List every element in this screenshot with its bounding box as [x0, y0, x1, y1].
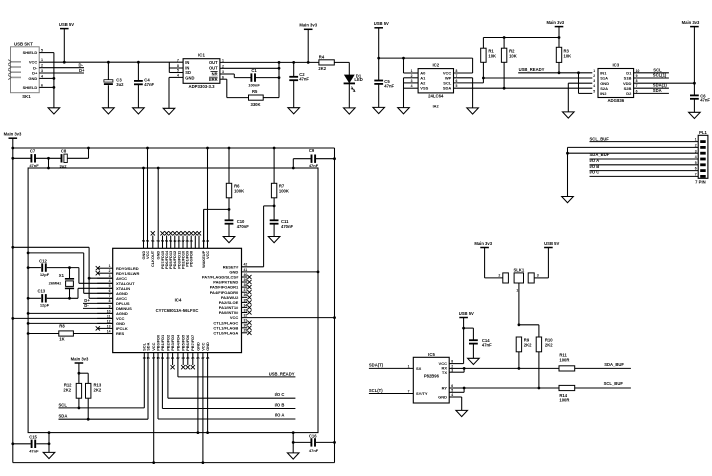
wire SDA_BUF — [575, 362, 631, 368]
wire SLK1 pad2 — [485, 274, 503, 278]
svg-text:D2: D2 — [626, 91, 632, 96]
svg-text:10K: 10K — [488, 53, 496, 58]
wire IC2 A0 pullup — [404, 58, 419, 73]
connector SK1 pin labels — [23, 50, 38, 90]
node D- label (IC4) — [83, 303, 113, 309]
svg-text:D+: D+ — [32, 71, 38, 76]
node SCL(T) label — [369, 388, 383, 393]
svg-text:3: 3 — [593, 79, 595, 83]
svg-text:IC4: IC4 — [175, 298, 182, 303]
jumper SLK1 pads — [503, 267, 534, 292]
ground (C4) — [133, 108, 145, 114]
wire IC3 D1 SCL — [634, 67, 669, 73]
svg-text:D-: D- — [84, 303, 89, 308]
analog switch IC3 body — [598, 62, 634, 103]
ground (PL1 pins 2,3) — [562, 197, 574, 203]
wire IC4 VCC pin27 column — [202, 353, 204, 463]
svg-text:47nF: 47nF — [29, 163, 39, 168]
svg-text:38: 38 — [244, 283, 248, 287]
wire 3v3 right trunk — [333, 148, 336, 463]
capacitor C11 — [270, 219, 294, 237]
wire SLK1 common — [518, 283, 539, 337]
svg-text:PB4/FD4: PB4/FD4 — [175, 334, 180, 351]
svg-text:C7: C7 — [30, 149, 36, 154]
wire PL1 pin1 SCL_BUF — [590, 137, 699, 142]
power Main 3v3 (top left trunk) — [4, 132, 22, 463]
svg-text:IN: IN — [185, 60, 189, 65]
svg-text:GND: GND — [205, 342, 210, 351]
svg-text:PL1: PL1 — [699, 130, 707, 135]
svg-text:40: 40 — [244, 273, 248, 277]
svg-text:11: 11 — [107, 314, 111, 318]
svg-text:3: 3 — [537, 274, 539, 278]
node I/O C label — [275, 392, 285, 397]
IC4 left pin stubs — [97, 268, 113, 333]
wire VCC 5V net — [39, 61, 183, 64]
svg-text:1: 1 — [109, 264, 111, 268]
capacitor C1 — [248, 68, 260, 87]
connector SK1 contact fingers — [8, 60, 21, 80]
svg-text:330K: 330K — [250, 102, 260, 107]
svg-text:SDA_BUF: SDA_BUF — [590, 152, 610, 157]
connector PL1 pads — [700, 140, 706, 178]
wire WAKEUP jog — [204, 209, 229, 248]
capacitor C7 — [11, 149, 39, 169]
svg-text:100nF: 100nF — [248, 82, 260, 87]
wire IC3 VDD — [634, 82, 696, 85]
svg-text:47nF: 47nF — [309, 163, 319, 168]
wire C8 to 3v3 rail — [67, 148, 88, 158]
ground (socket shield) — [48, 108, 60, 114]
wire AVCC pin7 — [89, 297, 113, 299]
svg-text:4: 4 — [41, 74, 43, 78]
svg-text:SCL: SCL — [59, 402, 68, 407]
wire IC5 VCC pin8 — [449, 363, 463, 365]
svg-text:8: 8 — [109, 299, 111, 303]
svg-text:IC3: IC3 — [612, 62, 619, 67]
svg-text:3: 3 — [109, 274, 111, 278]
svg-text:29: 29 — [244, 329, 248, 333]
wire IC5 GND pin4 — [449, 397, 462, 410]
wire XTALIN pin5 — [78, 288, 113, 298]
svg-text:C15: C15 — [29, 435, 37, 440]
wire IC2 WP to ground — [454, 78, 473, 108]
svg-text:VSS: VSS — [420, 86, 428, 91]
wire PL1 pin7 I/O C — [590, 170, 699, 177]
IC4 left pin labels — [116, 266, 139, 336]
wire IC3 GND — [568, 83, 592, 112]
svg-text:C8: C8 — [61, 149, 67, 154]
wire SDA buffered net — [464, 367, 559, 369]
svg-text:I/O C: I/O C — [275, 392, 285, 397]
wire AVCC pin3 — [89, 277, 113, 279]
wire SDA — [59, 418, 149, 420]
svg-text:P82B96: P82B96 — [424, 374, 440, 379]
wire VCC pin11 — [11, 317, 112, 320]
svg-text:GND: GND — [438, 395, 447, 400]
IC4 top no-connect stubs — [151, 231, 201, 248]
resistor R1 — [481, 38, 496, 79]
IC5 pin numbers — [408, 360, 454, 398]
resistor R2 — [501, 38, 516, 89]
wire IC2 VCC pin8 — [454, 58, 473, 73]
svg-text:C12: C12 — [39, 259, 47, 264]
svg-text:PB1/FD1: PB1/FD1 — [160, 334, 165, 351]
wire IC3 IN2 branch — [579, 73, 593, 94]
svg-text:34: 34 — [244, 303, 248, 307]
wire SDA bus — [454, 87, 593, 90]
svg-text:USB_READY: USB_READY — [269, 372, 295, 377]
ground (IC2 address pins) — [398, 108, 410, 114]
wire SCL — [59, 407, 145, 409]
svg-text:100R: 100R — [559, 398, 569, 403]
svg-text:Main 3v3: Main 3v3 — [71, 356, 89, 361]
svg-text:GND: GND — [185, 76, 194, 81]
IC4 right pin numbers — [244, 263, 248, 333]
resistor R3 — [556, 47, 571, 74]
svg-text:VCC: VCC — [145, 251, 150, 259]
no-connect X pins 1 2 13 — [96, 266, 100, 330]
svg-text:D-: D- — [33, 65, 38, 70]
svg-text:2K2: 2K2 — [63, 387, 71, 392]
svg-text:1K: 1K — [59, 336, 64, 341]
svg-text:3u2: 3u2 — [116, 82, 124, 87]
memory IC2 body — [418, 62, 453, 108]
svg-text:USB 5V: USB 5V — [544, 241, 559, 246]
svg-text:5: 5 — [109, 284, 111, 288]
svg-text:ERR: ERR — [209, 77, 218, 82]
svg-text:Main 3v3: Main 3v3 — [682, 20, 700, 25]
svg-text:42: 42 — [244, 263, 248, 267]
svg-text:2K2: 2K2 — [318, 66, 326, 71]
svg-text:IC1: IC1 — [198, 53, 205, 58]
capacitor C15 — [11, 435, 50, 454]
svg-text:47nF: 47nF — [309, 448, 319, 453]
svg-text:13: 13 — [107, 324, 111, 328]
svg-text:3: 3 — [411, 79, 413, 83]
wire IC4 VCC pin43 column — [207, 148, 209, 248]
svg-text:6: 6 — [636, 89, 638, 93]
wire IC1 OUT2 — [220, 67, 281, 70]
wire R4 to LED — [334, 62, 349, 75]
resistor R11 — [559, 353, 575, 371]
IC3 pin labels — [600, 70, 632, 96]
svg-text:9: 9 — [636, 74, 638, 78]
svg-text:A2: A2 — [420, 80, 426, 85]
power USB 5V (IC5) — [459, 311, 474, 364]
resistor R6 — [226, 148, 244, 198]
svg-text:100R: 100R — [559, 357, 569, 362]
wire C1 to OUT vertical — [255, 62, 280, 97]
resistor R9 — [516, 337, 532, 370]
wire USB5V horizontal — [377, 57, 472, 60]
wire IC4 PB1 column — [161, 353, 163, 409]
svg-text:SHIELD: SHIELD — [23, 50, 38, 55]
svg-text:SDA: SDA — [443, 86, 452, 91]
svg-text:C1: C1 — [251, 68, 257, 73]
resistor R10 — [536, 337, 553, 389]
svg-text:3: 3 — [41, 69, 43, 73]
svg-text:SCL(1): SCL(1) — [653, 73, 667, 78]
wire IC4 SCL column — [143, 353, 145, 408]
svg-text:30: 30 — [244, 324, 248, 328]
capacitor C3 — [104, 62, 124, 108]
crystal X1 — [49, 268, 74, 299]
ground (C16) — [287, 453, 299, 459]
svg-text:5: 5 — [41, 49, 43, 53]
svg-text:2: 2 — [109, 269, 111, 273]
svg-text:41: 41 — [244, 268, 248, 272]
wire SCL buffered net — [464, 387, 559, 389]
wire 3v3 top rail — [11, 147, 334, 150]
svg-text:1: 1 — [593, 69, 595, 73]
svg-text:USB 5V: USB 5V — [59, 22, 74, 27]
svg-text:X1: X1 — [59, 273, 65, 278]
svg-text:14: 14 — [107, 329, 111, 333]
IC1 pin labels — [185, 60, 218, 82]
svg-text:4: 4 — [593, 84, 595, 88]
svg-text:SY/TY: SY/TY — [416, 391, 428, 396]
capacitor C6 — [690, 93, 710, 112]
ground (C2) — [288, 108, 300, 114]
wire IC1 IN pins tie — [169, 62, 183, 72]
svg-text:IC5: IC5 — [428, 352, 435, 357]
capacitor C9 — [293, 148, 334, 168]
wire GND pin4 — [39, 77, 55, 80]
svg-text:33: 33 — [244, 308, 248, 312]
wire IC4 VCC pin32 to 3v3 — [242, 317, 335, 319]
svg-text:VCC: VCC — [29, 60, 38, 65]
svg-text:6: 6 — [41, 83, 43, 87]
ground (IC5) — [456, 410, 468, 416]
svg-text:470nF: 470nF — [237, 224, 250, 229]
svg-text:8: 8 — [456, 69, 458, 73]
IC4 bottom pin labels — [142, 334, 210, 351]
svg-text:I/O A: I/O A — [275, 413, 285, 418]
svg-text:NR: NR — [212, 72, 218, 77]
svg-text:4: 4 — [109, 279, 111, 283]
wire IC3 S2B SDA(1) — [634, 83, 669, 89]
wire C15 node to ground — [48, 433, 50, 453]
wire IC2 A1 A2 VSS to ground — [404, 78, 419, 108]
node I/O A label — [275, 413, 285, 418]
buffer IC5 body — [413, 352, 449, 403]
svg-text:R3: R3 — [564, 48, 570, 53]
svg-text:36: 36 — [244, 293, 248, 297]
wire IC4 WAKEUP column — [203, 209, 205, 248]
svg-text:1: 1 — [516, 289, 518, 293]
svg-text:SDA: SDA — [59, 414, 68, 419]
wire IC3 D2 SDA — [634, 88, 669, 94]
svg-text:LED: LED — [354, 77, 362, 82]
svg-text:SLK1: SLK1 — [513, 267, 524, 272]
capacitor C10 — [225, 219, 250, 237]
svg-text:2K2: 2K2 — [94, 387, 102, 392]
svg-text:SDA_BUF: SDA_BUF — [604, 362, 624, 367]
svg-text:Main 3v3: Main 3v3 — [4, 132, 22, 137]
power Main 3v3 (above R3) — [546, 20, 564, 47]
node SDA label — [59, 414, 68, 419]
capacitor C13 — [28, 288, 78, 307]
wire IC4 PB0 column — [157, 353, 159, 419]
svg-text:Main 3v3: Main 3v3 — [299, 23, 317, 28]
wire R5 to OUT vertical — [263, 97, 279, 99]
ground (IC1 GND) — [163, 108, 175, 114]
svg-text:1: 1 — [411, 69, 413, 73]
wire I/O B — [162, 408, 295, 410]
svg-text:24LC64: 24LC64 — [428, 93, 444, 98]
wire IC1 ERR to R5 — [220, 79, 249, 97]
node I/O B label — [275, 402, 285, 407]
capacitor C16 — [292, 433, 335, 453]
wire IC4 GND pin53 column — [157, 168, 159, 248]
capacitor C8 polarized — [60, 149, 68, 169]
wire IC5 RY TY tie — [449, 387, 465, 393]
IC4 bottom pin numbers — [143, 356, 210, 360]
IC4 right pin stubs — [242, 277, 248, 333]
wire C16 node to ground — [292, 433, 294, 453]
wire AGND pin6 — [84, 292, 113, 294]
svg-text:3u2: 3u2 — [60, 163, 68, 168]
connector PL1 body — [695, 130, 708, 184]
power Main 3v3 (R12 R13) — [71, 356, 89, 383]
wire IC2 SCL up to R1 — [454, 77, 485, 83]
IC4 bottom no-connect stubs — [171, 353, 195, 370]
svg-text:SDA: SDA — [145, 342, 150, 350]
wire GND pin12 — [28, 322, 113, 324]
IC4 left pin numbers — [107, 264, 111, 333]
wire I/O C — [168, 397, 296, 399]
svg-text:R5: R5 — [252, 89, 258, 94]
wire 3v3 bottom rail — [13, 461, 335, 464]
svg-text:7: 7 — [109, 294, 111, 298]
svg-text:5: 5 — [593, 89, 595, 93]
wire AGND pin10 — [28, 312, 113, 314]
wire LED cathode to ground — [348, 83, 350, 108]
svg-text:CTL0/FLAGA: CTL0/FLAGA — [213, 330, 238, 335]
svg-text:I/O B: I/O B — [590, 164, 600, 169]
svg-text:8: 8 — [451, 360, 453, 364]
wire IC4 VCC pin17 column — [153, 353, 155, 463]
svg-text:RES: RES — [116, 331, 125, 336]
wire D- stub — [39, 67, 84, 69]
ground (C3) — [103, 108, 115, 114]
svg-text:47nF: 47nF — [700, 98, 710, 103]
wire IC1 NR to C1 — [220, 74, 252, 78]
svg-text:SCL(T): SCL(T) — [369, 388, 383, 393]
wire IC4 PB2 column — [167, 353, 169, 399]
wire D+ stub — [39, 72, 84, 74]
wire IC4 GND pin56 column — [143, 168, 145, 248]
regulator IC1 body — [183, 53, 220, 89]
node D+ label — [79, 68, 85, 73]
svg-text:2K2: 2K2 — [545, 343, 553, 348]
svg-text:5: 5 — [456, 84, 458, 88]
wire IC4 GND pin26 column — [197, 353, 199, 433]
svg-text:USB_READY: USB_READY — [519, 67, 545, 72]
ground (IC3 GND) — [563, 112, 575, 118]
svg-text:470nF: 470nF — [281, 224, 294, 229]
svg-text:35: 35 — [244, 298, 248, 302]
svg-text:26MHz: 26MHz — [49, 281, 62, 286]
power USB 5V (top left) — [59, 22, 74, 62]
svg-text:1: 1 — [222, 58, 224, 62]
svg-text:100K: 100K — [279, 189, 289, 194]
svg-text:CLKOUT: CLKOUT — [150, 250, 155, 267]
wire 3v3 pullup rail — [483, 36, 560, 39]
node SDA(T) label — [369, 363, 384, 368]
capacitor C4 — [134, 62, 155, 108]
svg-text:SCL_BUF: SCL_BUF — [590, 137, 610, 142]
ground (LED) — [344, 108, 356, 114]
ground (C5) — [373, 107, 385, 113]
node D- label — [79, 63, 84, 68]
wire IC4 VCC pin55 column — [147, 148, 149, 248]
wire PL1 pin3 — [566, 147, 698, 196]
svg-text:IA2: IA2 — [433, 103, 440, 108]
wire AVCC feed — [11, 246, 90, 298]
connector PL1 pin numbers — [695, 138, 697, 177]
connector SK1 pin numbers — [41, 49, 43, 88]
IC2 pin numbers — [411, 69, 458, 88]
wire USB_READY to IC3 IN1 — [518, 71, 592, 74]
ground (C10) — [223, 237, 235, 243]
wire SCL bus to IC3 S1A — [483, 77, 592, 79]
svg-text:2: 2 — [593, 74, 595, 78]
svg-text:Main 3v3: Main 3v3 — [546, 20, 564, 25]
wire USB_READY — [178, 376, 296, 378]
svg-text:OUT: OUT — [209, 66, 218, 71]
wire XTALOUT pin4 — [79, 268, 113, 284]
IC3 pin numbers — [593, 69, 639, 94]
capacitor C2 — [289, 62, 309, 107]
svg-text:CY7C68013A-56LFXC: CY7C68013A-56LFXC — [156, 308, 199, 313]
wire SHIELD pin6 — [39, 86, 55, 89]
wire IC1 OUT rail 3v3 — [220, 61, 319, 64]
capacitor C12 — [28, 259, 79, 278]
svg-text:47nF: 47nF — [144, 82, 154, 87]
svg-text:OUT: OUT — [209, 60, 218, 65]
svg-text:SDA(T): SDA(T) — [369, 363, 384, 368]
svg-text:TX: TX — [442, 370, 447, 375]
wire IC5 RX TX tie — [449, 367, 465, 372]
svg-text:8: 8 — [636, 79, 638, 83]
svg-text:C9: C9 — [309, 148, 315, 153]
wire IC4 PB4 column — [177, 353, 179, 377]
svg-text:R8: R8 — [59, 324, 65, 329]
svg-text:47nF: 47nF — [299, 77, 309, 82]
wire PL1 pin5 I/O A — [590, 158, 699, 165]
wire PL1 pin2 — [568, 146, 699, 148]
wire SDA(T) — [369, 367, 413, 369]
wire R7 bottom node — [273, 198, 276, 220]
IC4 right pin labels — [202, 264, 239, 335]
wire R6 bottom node — [228, 198, 231, 220]
IC1 pin numbers — [177, 58, 224, 79]
svg-text:2K2: 2K2 — [524, 343, 532, 348]
svg-text:10K: 10K — [509, 53, 517, 58]
wire AGND feed — [28, 253, 84, 293]
svg-text:USB SKT: USB SKT — [14, 41, 33, 46]
svg-text:IN2: IN2 — [600, 91, 607, 96]
wire shield vertical to ground — [53, 53, 55, 108]
svg-text:I/O B: I/O B — [275, 402, 285, 407]
svg-text:12: 12 — [107, 319, 111, 323]
wire SLK1 pad3 — [534, 274, 548, 278]
ground (C15) — [43, 452, 55, 458]
resistor R12 — [63, 383, 81, 410]
svg-text:I/O C: I/O C — [590, 170, 600, 175]
